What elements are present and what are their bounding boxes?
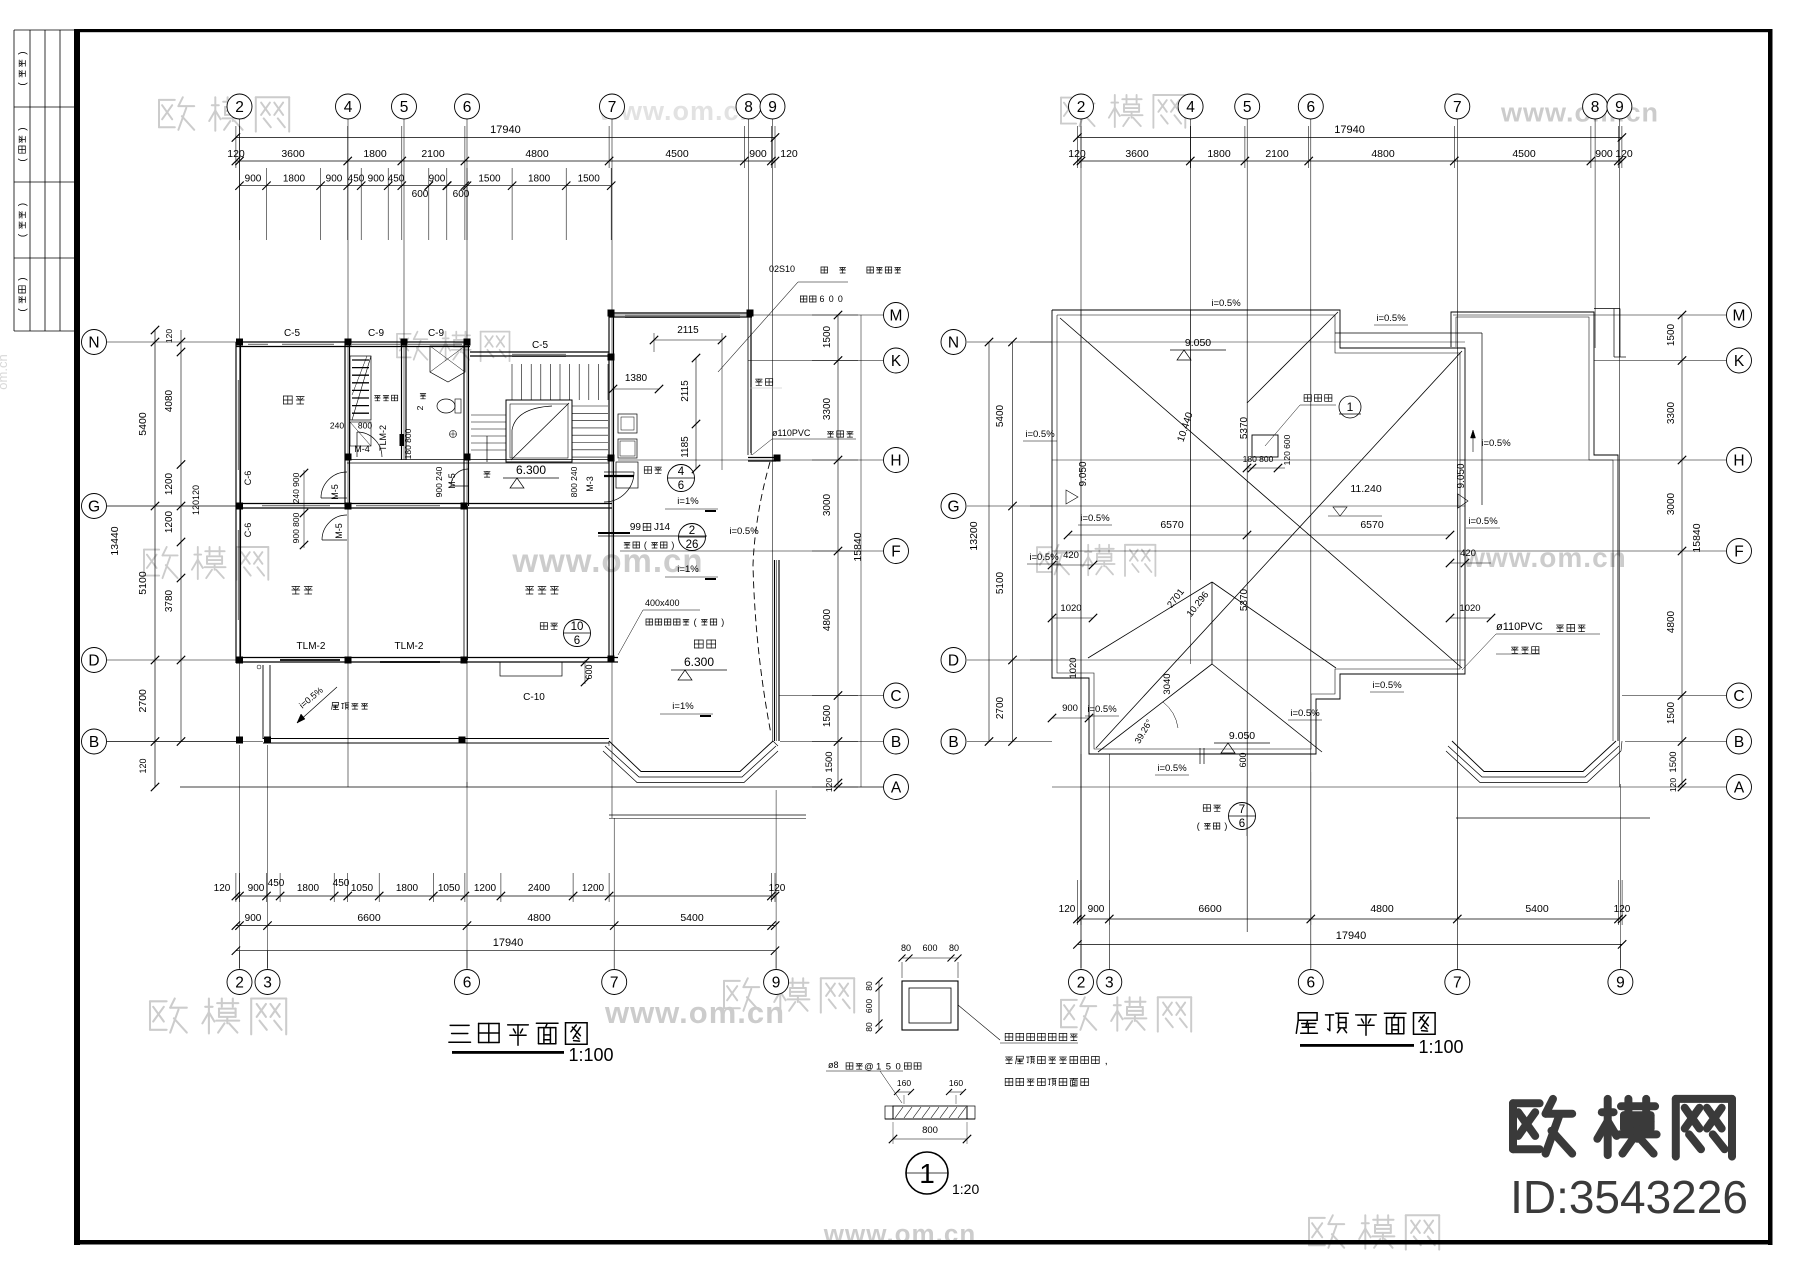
svg-text:10: 10 <box>571 621 584 633</box>
svg-text:): ) <box>18 277 29 280</box>
svg-text:17940: 17940 <box>490 124 521 136</box>
svg-text:M-3: M-3 <box>585 476 595 492</box>
svg-text:H: H <box>890 453 901 470</box>
svg-text:9: 9 <box>1616 975 1625 992</box>
svg-text:6: 6 <box>1306 975 1315 992</box>
svg-text:3000: 3000 <box>1666 492 1677 515</box>
svg-text:3000: 3000 <box>822 493 833 516</box>
svg-text:120: 120 <box>824 778 834 792</box>
svg-text:900 800: 900 800 <box>291 512 301 543</box>
svg-text:i=1%: i=1% <box>677 496 699 507</box>
svg-text:1:20: 1:20 <box>952 1181 979 1197</box>
svg-text:15840: 15840 <box>852 532 864 561</box>
svg-text:120: 120 <box>1059 904 1076 915</box>
svg-text:120: 120 <box>1615 148 1633 160</box>
svg-text:11.240: 11.240 <box>1350 483 1381 495</box>
svg-text:i=0.5%: i=0.5% <box>1080 513 1110 524</box>
svg-text:1380: 1380 <box>625 373 648 384</box>
svg-text:240: 240 <box>330 421 344 431</box>
svg-text:1800: 1800 <box>283 174 306 185</box>
svg-text:www.om.cn: www.om.cn <box>1462 542 1627 573</box>
svg-text:80: 80 <box>949 943 959 953</box>
svg-text:B: B <box>948 734 958 751</box>
svg-text:): ) <box>1224 821 1227 831</box>
svg-text:(: ( <box>1197 821 1200 831</box>
svg-text:9.050: 9.050 <box>1078 461 1089 486</box>
svg-text:1500: 1500 <box>478 174 501 185</box>
svg-text:7: 7 <box>1239 804 1245 816</box>
svg-text:C-10: C-10 <box>523 692 545 703</box>
svg-text:6: 6 <box>463 99 472 116</box>
svg-text:9.050: 9.050 <box>1185 337 1211 349</box>
svg-text:C: C <box>1733 688 1744 705</box>
svg-text:2: 2 <box>415 405 425 410</box>
svg-text:i=0.5%: i=0.5% <box>1376 313 1406 324</box>
svg-text:2: 2 <box>689 525 695 537</box>
svg-text:120 600: 120 600 <box>1282 434 1292 465</box>
svg-text:1200: 1200 <box>164 472 175 495</box>
svg-text:180 800: 180 800 <box>1243 454 1274 464</box>
svg-text:M-4: M-4 <box>354 444 370 454</box>
svg-text:3600: 3600 <box>1125 148 1149 160</box>
svg-text:G: G <box>947 499 959 516</box>
svg-text:6: 6 <box>1239 818 1245 830</box>
svg-text:1800: 1800 <box>396 883 419 894</box>
svg-text:13440: 13440 <box>109 526 121 555</box>
svg-text:900: 900 <box>749 148 767 160</box>
svg-text:i=1%: i=1% <box>672 701 694 712</box>
svg-text:9.050: 9.050 <box>1456 463 1467 488</box>
svg-text:F: F <box>1734 544 1743 561</box>
svg-text:800: 800 <box>922 1125 938 1136</box>
svg-text:www.om.cn: www.om.cn <box>1500 98 1659 128</box>
svg-text:7: 7 <box>610 975 619 992</box>
svg-text:800: 800 <box>358 421 372 431</box>
svg-text:240 900: 240 900 <box>291 472 301 503</box>
svg-text:1050: 1050 <box>438 883 461 894</box>
svg-text:8: 8 <box>744 99 753 116</box>
svg-text:(: ( <box>644 540 647 550</box>
svg-text:7: 7 <box>1453 975 1462 992</box>
svg-text:M-5: M-5 <box>330 484 340 500</box>
svg-text:C-5: C-5 <box>532 340 549 351</box>
svg-text:4080: 4080 <box>164 389 175 412</box>
svg-text:TLM-2: TLM-2 <box>297 641 326 652</box>
svg-text:): ) <box>18 203 29 206</box>
svg-text:3300: 3300 <box>1666 401 1677 424</box>
svg-text:1:100: 1:100 <box>568 1045 613 1065</box>
svg-text:120: 120 <box>164 329 174 343</box>
svg-text:5400: 5400 <box>995 404 1006 427</box>
svg-text:17940: 17940 <box>1334 124 1365 136</box>
svg-text:i=0.5%: i=0.5% <box>1290 708 1320 719</box>
svg-text:2100: 2100 <box>1265 148 1289 160</box>
svg-text:5: 5 <box>400 99 409 116</box>
svg-text:0: 0 <box>838 294 843 304</box>
svg-text:5400: 5400 <box>680 912 704 924</box>
svg-text:H: H <box>1733 453 1744 470</box>
svg-text:i=0.5%: i=0.5% <box>1029 552 1059 563</box>
svg-text:A: A <box>891 780 902 797</box>
svg-text:3040: 3040 <box>1162 673 1173 694</box>
svg-text:N: N <box>948 335 959 352</box>
svg-text:4800: 4800 <box>822 608 833 631</box>
svg-text:1050: 1050 <box>351 883 374 894</box>
svg-text:1185: 1185 <box>680 436 691 458</box>
svg-text:9: 9 <box>1615 99 1624 116</box>
svg-text:02S10: 02S10 <box>769 264 795 274</box>
svg-text:4500: 4500 <box>665 148 689 160</box>
svg-text:2: 2 <box>1077 99 1086 116</box>
svg-text:2100: 2100 <box>421 148 445 160</box>
svg-text:6570: 6570 <box>1160 519 1184 531</box>
svg-text:600: 600 <box>922 943 937 953</box>
svg-text:120: 120 <box>214 883 231 894</box>
svg-text:6: 6 <box>1306 99 1315 116</box>
svg-text:900: 900 <box>245 174 262 185</box>
svg-text:450: 450 <box>348 174 365 185</box>
svg-text:1:100: 1:100 <box>1418 1037 1463 1057</box>
svg-text:M: M <box>890 308 903 325</box>
svg-text:2115: 2115 <box>677 325 699 336</box>
svg-text:15840: 15840 <box>1691 523 1703 552</box>
svg-text:6: 6 <box>820 294 825 304</box>
svg-text:F: F <box>891 544 900 561</box>
svg-text:5100: 5100 <box>137 571 149 595</box>
svg-text:420: 420 <box>1460 548 1476 559</box>
svg-text:4800: 4800 <box>1666 610 1677 633</box>
svg-text:9.050: 9.050 <box>1229 730 1255 742</box>
svg-text:D: D <box>88 653 99 670</box>
svg-text:6.300: 6.300 <box>684 655 714 669</box>
svg-text:9: 9 <box>772 975 781 992</box>
svg-text:3300: 3300 <box>822 397 833 420</box>
svg-text:2: 2 <box>1077 975 1086 992</box>
svg-text:1500: 1500 <box>1666 323 1677 346</box>
svg-text:1500: 1500 <box>1666 701 1677 724</box>
svg-text:www.om.cn: www.om.cn <box>511 542 703 579</box>
svg-text:17940: 17940 <box>1336 930 1367 942</box>
svg-text:3600: 3600 <box>281 148 305 160</box>
svg-text:om.cn: om.cn <box>0 354 10 389</box>
svg-text:4800: 4800 <box>1370 903 1394 915</box>
svg-text:5400: 5400 <box>137 412 149 436</box>
svg-text:N: N <box>88 335 99 352</box>
svg-text:i=0.5%: i=0.5% <box>1468 516 1498 527</box>
svg-text:900: 900 <box>1595 148 1613 160</box>
svg-text:120: 120 <box>780 148 798 160</box>
svg-text:4: 4 <box>1186 99 1195 116</box>
svg-text:80: 80 <box>864 1022 874 1032</box>
svg-text:): ) <box>18 127 29 130</box>
svg-text:1800: 1800 <box>1207 148 1231 160</box>
svg-text:2: 2 <box>235 99 244 116</box>
svg-text:99: 99 <box>630 522 642 533</box>
svg-text:900: 900 <box>248 883 265 894</box>
svg-text:1500: 1500 <box>824 751 835 772</box>
svg-text:900: 900 <box>1062 703 1078 714</box>
svg-text:160: 160 <box>949 1078 963 1088</box>
svg-text:(: ( <box>694 617 697 627</box>
svg-text:4: 4 <box>344 99 353 116</box>
svg-text:1800: 1800 <box>363 148 387 160</box>
svg-text:4800: 4800 <box>525 148 549 160</box>
svg-text:600: 600 <box>1238 752 1248 767</box>
svg-text:160: 160 <box>897 1078 911 1088</box>
svg-text:7: 7 <box>1453 99 1462 116</box>
svg-text:600: 600 <box>864 999 874 1013</box>
svg-text:120120: 120120 <box>191 485 201 515</box>
svg-text:1: 1 <box>1347 400 1354 414</box>
svg-text:C: C <box>890 688 901 705</box>
svg-text:): ) <box>18 51 29 54</box>
svg-text:G: G <box>88 499 100 516</box>
svg-text:ø8: ø8 <box>828 1060 839 1070</box>
svg-text:2400: 2400 <box>528 883 551 894</box>
svg-text:450: 450 <box>268 878 285 889</box>
svg-text:0: 0 <box>829 294 834 304</box>
svg-text:2115: 2115 <box>680 380 691 402</box>
svg-text:5400: 5400 <box>1525 903 1549 915</box>
svg-text:M: M <box>1733 308 1746 325</box>
svg-text:26: 26 <box>686 539 699 551</box>
svg-text:C-9: C-9 <box>368 328 385 339</box>
svg-text:1800: 1800 <box>528 174 551 185</box>
svg-text:2: 2 <box>235 975 244 992</box>
svg-text:3780: 3780 <box>164 589 175 612</box>
svg-text:i=0.5%: i=0.5% <box>1372 680 1402 691</box>
svg-text:80: 80 <box>864 981 874 991</box>
svg-text:4800: 4800 <box>1371 148 1395 160</box>
svg-text:1500: 1500 <box>822 704 833 727</box>
svg-text:C-9: C-9 <box>428 328 445 339</box>
svg-text:A: A <box>1734 780 1745 797</box>
svg-text:1020: 1020 <box>1068 657 1079 678</box>
svg-text:5370: 5370 <box>1239 588 1250 611</box>
svg-text:TLM-2: TLM-2 <box>378 425 388 451</box>
svg-text:i=0.5%: i=0.5% <box>1157 763 1187 774</box>
svg-text:1500: 1500 <box>822 325 833 348</box>
svg-text:450: 450 <box>333 878 350 889</box>
svg-text:M-5: M-5 <box>334 523 344 539</box>
svg-text:6570: 6570 <box>1360 519 1384 531</box>
svg-text:5: 5 <box>1243 99 1252 116</box>
svg-text:2700: 2700 <box>995 696 1006 719</box>
svg-text:5370: 5370 <box>1239 416 1250 439</box>
svg-text:1500: 1500 <box>578 174 601 185</box>
svg-text:6600: 6600 <box>357 912 381 924</box>
svg-text:400x400: 400x400 <box>645 598 680 608</box>
svg-text:120: 120 <box>1668 778 1678 792</box>
svg-text:6: 6 <box>574 635 580 647</box>
svg-text:6600: 6600 <box>1198 903 1222 915</box>
svg-text:1020: 1020 <box>1060 603 1081 614</box>
svg-text:i=1%: i=1% <box>677 564 699 575</box>
svg-text:1500: 1500 <box>1668 751 1679 772</box>
svg-text:,: , <box>1105 1055 1108 1067</box>
svg-text:B: B <box>1734 734 1744 751</box>
svg-text:C-6: C-6 <box>243 523 253 538</box>
svg-text:i=0.5%: i=0.5% <box>729 526 759 537</box>
svg-text:K: K <box>1734 353 1745 370</box>
svg-text:3: 3 <box>1105 975 1114 992</box>
svg-text:120: 120 <box>1068 148 1086 160</box>
svg-text:6: 6 <box>463 975 472 992</box>
svg-text:8: 8 <box>1591 99 1600 116</box>
svg-text:2700: 2700 <box>137 689 149 713</box>
svg-text:600: 600 <box>584 664 594 679</box>
svg-text:4800: 4800 <box>527 912 551 924</box>
svg-text:): ) <box>671 540 674 550</box>
svg-text:4500: 4500 <box>1512 148 1536 160</box>
svg-text:900: 900 <box>326 174 343 185</box>
svg-text:C-6: C-6 <box>243 471 253 486</box>
svg-text:1020: 1020 <box>1459 603 1480 614</box>
svg-text:i=0.5%: i=0.5% <box>1481 438 1511 449</box>
svg-text:450: 450 <box>388 174 405 185</box>
svg-text:i=0.5%: i=0.5% <box>1025 429 1055 440</box>
svg-text:i=0.5%: i=0.5% <box>1211 298 1241 309</box>
svg-text:120: 120 <box>138 758 148 773</box>
svg-text:1200: 1200 <box>582 883 605 894</box>
svg-text:ID:3543226: ID:3543226 <box>1510 1171 1748 1223</box>
svg-text:80: 80 <box>901 943 911 953</box>
svg-text:9: 9 <box>768 99 777 116</box>
svg-text:B: B <box>891 734 901 751</box>
svg-text:800 240: 800 240 <box>569 466 579 497</box>
svg-text:www.om.cn: www.om.cn <box>604 995 785 1030</box>
svg-text:i=0.5%: i=0.5% <box>1087 704 1117 715</box>
svg-text:6: 6 <box>678 480 684 492</box>
svg-text:B: B <box>89 734 99 751</box>
svg-text:900: 900 <box>1088 904 1105 915</box>
svg-text:900: 900 <box>245 913 262 924</box>
svg-text:J14: J14 <box>654 522 671 533</box>
svg-text:): ) <box>721 617 724 627</box>
svg-text:ø110PVC: ø110PVC <box>1496 621 1543 633</box>
svg-text:17940: 17940 <box>493 937 524 949</box>
svg-text:6.300: 6.300 <box>516 463 546 477</box>
svg-text:4: 4 <box>678 466 685 478</box>
svg-text:C-5: C-5 <box>284 328 301 339</box>
svg-text:K: K <box>891 353 902 370</box>
svg-text:3: 3 <box>263 975 272 992</box>
svg-text:7: 7 <box>608 99 617 116</box>
svg-text:D: D <box>948 653 959 670</box>
svg-text:ø110PVC: ø110PVC <box>772 428 811 438</box>
svg-text:TLM-2: TLM-2 <box>395 641 424 652</box>
svg-text:1: 1 <box>919 1158 935 1189</box>
svg-text:420: 420 <box>1063 550 1079 561</box>
svg-text:1800: 1800 <box>297 883 320 894</box>
svg-text:900 240: 900 240 <box>434 466 444 497</box>
svg-text:900: 900 <box>368 174 385 185</box>
svg-text:1200: 1200 <box>474 883 497 894</box>
svg-text:M-5: M-5 <box>447 473 457 489</box>
svg-text:13200: 13200 <box>968 521 980 550</box>
svg-text:600: 600 <box>412 189 429 200</box>
svg-text:180 800: 180 800 <box>403 428 413 459</box>
svg-text:5100: 5100 <box>995 571 1006 594</box>
svg-text:1200: 1200 <box>164 510 175 533</box>
